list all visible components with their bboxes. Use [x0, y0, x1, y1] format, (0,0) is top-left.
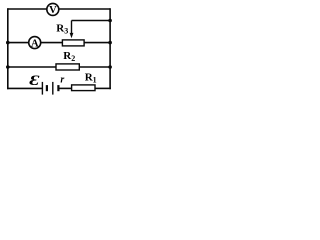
wire left edge to ammeter: [8, 42, 29, 44]
battery cell plate long 2: [52, 82, 54, 95]
battery cell plate short 1: [46, 85, 48, 91]
rheostat R3 slider arrow: [70, 21, 74, 39]
voltmeter V: [47, 3, 59, 16]
junction dot left A-wire: [6, 41, 10, 45]
wire R3 box to right edge: [84, 42, 110, 44]
battery cell plate long 1: [41, 82, 43, 95]
resistor R1 box: [72, 85, 95, 91]
wire R2 row left segment: [8, 66, 56, 68]
wire R1 box to right edge: [95, 87, 111, 89]
svg-text:Ɛ: Ɛ: [29, 72, 39, 88]
wire slider line to right edge: [72, 20, 111, 22]
wire battery to R1 box: [59, 87, 72, 89]
wire right edge: [109, 8, 111, 89]
junction dot right slider-wire: [108, 19, 112, 23]
wire top-right segment: [59, 8, 111, 10]
svg-text:V: V: [49, 5, 57, 16]
battery cell plate short 2: [57, 85, 59, 91]
wire ammeter to R3 box: [41, 42, 63, 44]
junction dot left R2-wire: [6, 65, 10, 69]
rheostat R3 box: [62, 40, 84, 46]
wire left edge: [7, 8, 9, 89]
ammeter A: [29, 37, 41, 50]
wire top-left segment: [8, 8, 47, 10]
junction dot right A-wire: [108, 41, 112, 45]
wire R2 row right segment: [79, 66, 110, 68]
svg-text:r: r: [60, 75, 64, 86]
resistor R2 box: [56, 64, 79, 70]
svg-text:A: A: [31, 38, 39, 49]
junction dot right R2-wire: [108, 65, 112, 69]
wire bottom-left segment to battery: [7, 87, 42, 89]
